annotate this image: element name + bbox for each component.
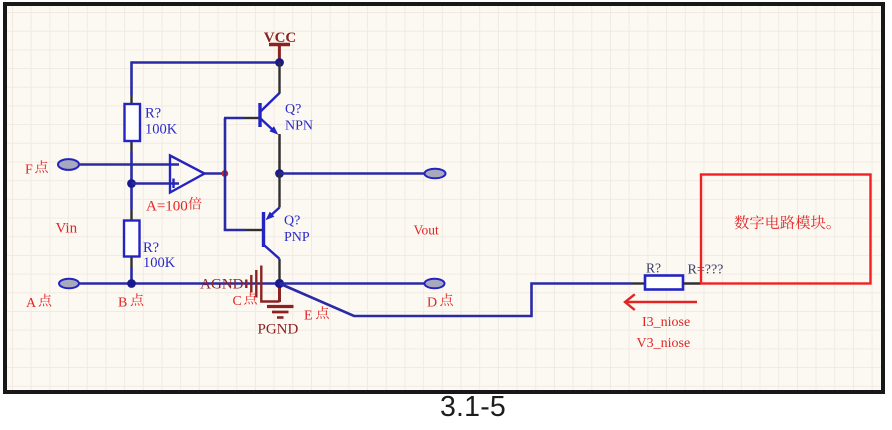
node junction B bbox=[127, 279, 136, 288]
svg-text:NPN: NPN bbox=[285, 119, 313, 134]
label R2 value 100K bbox=[143, 255, 176, 271]
svg-text:PGND: PGND bbox=[258, 322, 299, 338]
label Q1 designator Q? bbox=[285, 102, 301, 117]
transistor Q2 PNP bbox=[264, 208, 280, 259]
net label Vout bbox=[414, 223, 440, 238]
port output oval (Vout) bbox=[425, 169, 446, 179]
wire Q2 emitter pin bbox=[278, 174, 280, 208]
port D oval bbox=[425, 279, 445, 289]
wire top rail from R1 top to VCC node bbox=[132, 61, 280, 64]
net label E点 bbox=[304, 306, 329, 323]
noise current arrow I3 bbox=[625, 294, 697, 310]
resistor R1 (upper 100K) bbox=[125, 104, 141, 141]
net label C点 bbox=[233, 292, 257, 309]
label Q1 type NPN bbox=[285, 119, 313, 134]
wire left vertical branch bbox=[130, 61, 133, 283]
port F (input oval) bbox=[58, 159, 79, 170]
caption 3.1-5 bbox=[440, 391, 506, 424]
wire bottom rail left bbox=[79, 282, 280, 285]
node junction at B divider tap bbox=[127, 179, 136, 188]
label R2 designator R? bbox=[143, 240, 159, 256]
digital module block (red box) bbox=[701, 175, 871, 284]
wire Q1 emitter pin bbox=[278, 134, 281, 174]
svg-text:A: A bbox=[26, 296, 37, 311]
svg-text:Q?: Q? bbox=[285, 102, 301, 117]
wire Q1 collector pin bbox=[278, 63, 280, 94]
wire to Q1 base bbox=[224, 117, 259, 120]
wire bottom rail to port D bbox=[280, 282, 425, 285]
resistor R2 (lower 100K) bbox=[124, 221, 140, 257]
svg-text:R?: R? bbox=[646, 261, 661, 276]
svg-text:C: C bbox=[233, 294, 242, 309]
resistor R3 (series to module) bbox=[645, 276, 683, 290]
svg-text:D: D bbox=[427, 296, 437, 311]
label V3_niose bbox=[637, 336, 691, 351]
label R1 value 100K bbox=[145, 122, 178, 138]
net label D点 bbox=[427, 293, 453, 310]
label R3 designator R? bbox=[646, 261, 661, 276]
net label A点 bbox=[26, 294, 51, 311]
net label F点 bbox=[25, 160, 48, 177]
wire base drive vertical bbox=[224, 118, 227, 230]
net label Vin bbox=[56, 221, 78, 237]
svg-text:R=???: R=??? bbox=[688, 263, 724, 278]
wire to Q2 base bbox=[225, 229, 262, 230]
wire R3 to module bbox=[683, 282, 701, 284]
node junction (red) at op-amp output bbox=[221, 170, 228, 177]
ground symbol AGND bbox=[200, 266, 279, 302]
wire E run diagonal and across to module bbox=[280, 284, 646, 317]
label Q2 type PNP bbox=[284, 230, 310, 245]
svg-text:Vin: Vin bbox=[56, 221, 78, 237]
wire from port F to op-amp inverting input bbox=[79, 163, 180, 166]
label op-amp gain A=100倍 bbox=[146, 197, 202, 215]
ground symbol PGND bbox=[258, 284, 299, 338]
op-amp U1 (gain block) bbox=[170, 156, 205, 193]
svg-text:F: F bbox=[25, 163, 33, 178]
net label B点 bbox=[118, 293, 143, 310]
svg-text:100K: 100K bbox=[145, 122, 178, 138]
port A (input oval) bbox=[59, 279, 79, 289]
label R3 value R=??? bbox=[688, 263, 724, 278]
svg-text:Vout: Vout bbox=[414, 223, 440, 238]
svg-text:PNP: PNP bbox=[284, 230, 310, 245]
wire op-amp output bbox=[205, 172, 226, 175]
svg-text:100K: 100K bbox=[143, 255, 176, 271]
transistor Q1 NPN bbox=[260, 93, 280, 135]
svg-text:A=100: A=100 bbox=[146, 199, 188, 215]
node junction push-pull output bbox=[275, 169, 284, 178]
wire from tap to op-amp non-inverting input bbox=[132, 182, 180, 185]
svg-text:V3_niose: V3_niose bbox=[637, 336, 691, 351]
svg-text:I3_niose: I3_niose bbox=[642, 315, 690, 330]
wire output to port bbox=[280, 172, 425, 175]
label R1 designator R? bbox=[145, 106, 161, 122]
label I3_niose bbox=[642, 315, 690, 330]
svg-text:AGND: AGND bbox=[200, 277, 243, 293]
svg-text:B: B bbox=[118, 296, 127, 311]
power symbol VCC bbox=[264, 30, 297, 62]
node junction at VCC rail bbox=[275, 58, 284, 67]
svg-text:E: E bbox=[304, 309, 313, 324]
svg-text:R?: R? bbox=[145, 106, 161, 122]
node junction bottom rail bbox=[275, 279, 284, 288]
svg-text:R?: R? bbox=[143, 240, 159, 256]
label module 数字电路模块。 bbox=[735, 215, 831, 229]
label Q2 designator Q? bbox=[284, 214, 300, 229]
svg-text:Q?: Q? bbox=[284, 214, 300, 229]
wire Q2 collector pin bbox=[278, 259, 280, 284]
